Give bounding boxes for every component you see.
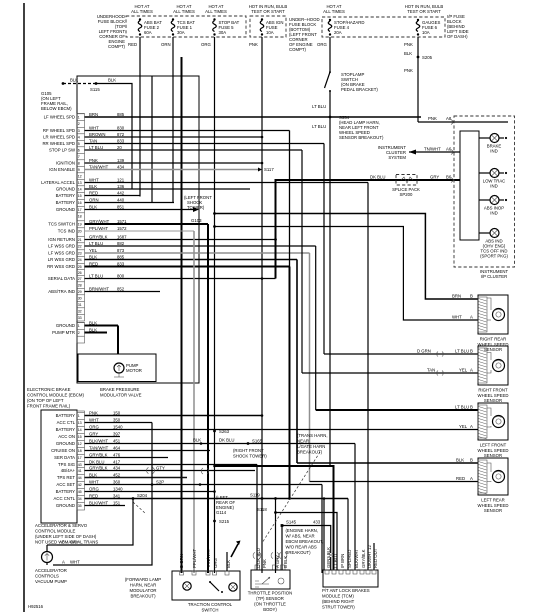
EBCM pin 19 row [77, 220, 85, 222]
wire RF WSS return riser [301, 150, 303, 373]
svg-text:NEAR: NEAR [297, 439, 309, 444]
svg-text:139: 139 [117, 158, 125, 163]
svg-text:B BLK: B BLK [283, 556, 288, 568]
svg-text:7: 7 [78, 155, 80, 159]
svg-text:1: 1 [78, 324, 80, 328]
svg-text:PNK: PNK [404, 42, 413, 47]
svg-text:ORG: ORG [201, 42, 211, 47]
svg-text:434: 434 [113, 466, 121, 471]
svg-text:ORN: ORN [89, 198, 99, 203]
svg-text:S204: S204 [137, 493, 148, 498]
svg-text:360: 360 [113, 480, 121, 485]
svg-text:GRY/WHT: GRY/WHT [89, 219, 110, 224]
svg-text:TCS SWITCH: TCS SWITCH [48, 222, 75, 227]
svg-text:BLK: BLK [89, 255, 97, 260]
svg-text:30A: 30A [177, 30, 185, 35]
EBCM pin 9 row [77, 165, 85, 167]
svg-text:SENSOR: SENSOR [484, 398, 502, 403]
EBCM pin 13 row [77, 178, 85, 180]
svg-text:4: 4 [78, 135, 80, 139]
svg-text:5: 5 [78, 142, 80, 146]
svg-text:TAN: TAN [427, 368, 435, 373]
EBCM pin 8 row [77, 159, 85, 161]
svg-text:LR WSS GRD: LR WSS GRD [48, 257, 75, 262]
svg-text:ORG: ORG [317, 42, 327, 47]
wire RF WSS riser [323, 144, 325, 355]
dashed breakout callouts [262, 452, 320, 543]
svg-text:S165: S165 [252, 439, 263, 444]
svg-text:GROUND: GROUND [56, 187, 75, 192]
svg-text:THROTTLE POSITION: THROTTLE POSITION [248, 591, 292, 596]
wire PNK from ABS IGN fuse [261, 37, 263, 573]
svg-text:WHEEL SPEED: WHEEL SPEED [478, 393, 509, 398]
svg-text:SENSOR: SENSOR [484, 453, 502, 458]
svg-text:BLK: BLK [89, 205, 97, 210]
wire PNK from GAUGES fuse [417, 37, 419, 122]
svg-text:ACC SET: ACC SET [56, 482, 75, 487]
svg-text:IGN ENABLE: IGN ENABLE [49, 167, 75, 172]
svg-text:STOP LP SW: STOP LP SW [49, 148, 76, 153]
svg-text:(ENGINE HARN,: (ENGINE HARN, [286, 528, 318, 533]
svg-text:GTY: GTY [156, 466, 165, 471]
EBCM pin 20 row [77, 227, 85, 229]
svg-text:15: 15 [78, 435, 82, 439]
wire thick stop lamp branch [215, 466, 334, 570]
tc switch pin terminals [180, 571, 184, 575]
svg-text:S215: S215 [219, 519, 230, 524]
svg-text:BLK: BLK [226, 560, 231, 568]
accelerator module pin column [77, 411, 85, 510]
wire ACC SET drop [321, 485, 323, 574]
svg-text:12: 12 [78, 174, 82, 178]
svg-text:442: 442 [117, 191, 125, 196]
svg-text:GRY/BLK: GRY/BLK [89, 453, 108, 458]
svg-text:GROUND: GROUND [56, 323, 75, 328]
svg-text:BATTERY: BATTERY [56, 427, 76, 432]
splice S354 [329, 116, 332, 119]
svg-text:ACCELERATOR: ACCELERATOR [35, 568, 67, 573]
instrument cluster dashed box [454, 116, 515, 267]
tc switch lamp [183, 582, 191, 590]
svg-text:RR WSS GRD: RR WSS GRD [47, 264, 75, 269]
traction control switch box [172, 571, 240, 600]
svg-text:2: 2 [78, 331, 80, 335]
svg-text:32: 32 [78, 309, 82, 313]
svg-text:1572: 1572 [117, 226, 127, 231]
svg-text:SPL/RED: SPL/RED [347, 550, 352, 568]
svg-text:1340: 1340 [113, 487, 123, 492]
svg-text:26: 26 [78, 271, 82, 275]
wire ORN thick bus [181, 57, 183, 573]
left front wheel speed sensor [478, 403, 509, 458]
svg-text:TN/WHT: TN/WHT [424, 147, 441, 152]
svg-text:CONTROL MODULE: CONTROL MODULE [35, 529, 76, 534]
svg-text:GROUND: GROUND [56, 503, 75, 508]
svg-text:(FORWARD LAMP: (FORWARD LAMP [125, 577, 161, 582]
splice pack SP200 [396, 175, 417, 186]
accel pin 1 row [77, 411, 85, 413]
svg-text:D GRN: D GRN [179, 554, 184, 568]
EBCM outline box [77, 76, 199, 383]
svg-text:43: 43 [78, 463, 82, 467]
svg-text:RED: RED [128, 42, 137, 47]
EBCM pin 25 row [77, 262, 85, 264]
svg-text:18: 18 [78, 214, 82, 218]
svg-text:RF WHEEL SPD: RF WHEEL SPD [43, 128, 75, 133]
svg-text:LT BLU: LT BLU [89, 241, 103, 246]
accel pin 43 row [77, 460, 85, 462]
svg-text:L/GATE HARN: L/GATE HARN [297, 444, 325, 449]
svg-text:20A: 20A [334, 30, 342, 35]
svg-text:1571: 1571 [117, 219, 127, 224]
splice S117 on ign enable wire [258, 168, 262, 172]
low trac indicator lamp [479, 169, 507, 189]
svg-text:29: 29 [78, 290, 82, 294]
tp sensor wire stubs [256, 465, 258, 571]
svg-text:TAN: TAN [89, 139, 97, 144]
EBCM pin 24 row [77, 255, 85, 257]
wire LR sensor feed [297, 462, 478, 464]
svg-text:MODULATOR VALVE: MODULATOR VALVE [100, 393, 142, 398]
svg-text:A: A [470, 368, 473, 373]
svg-text:HARN, NEAR: HARN, NEAR [130, 583, 157, 588]
svg-text:BLK/WHT: BLK/WHT [354, 549, 359, 568]
svg-text:A: A [470, 315, 473, 320]
svg-text:451: 451 [113, 439, 121, 444]
svg-text:FRONT FRAME RAIL): FRONT FRAME RAIL) [27, 404, 71, 409]
svg-text:LF WSS GRD: LF WSS GRD [48, 244, 75, 249]
svg-text:136: 136 [117, 184, 125, 189]
svg-text:PUMP MTR: PUMP MTR [52, 330, 75, 335]
wire BLK to EBCM ground [96, 84, 132, 190]
svg-text:440: 440 [117, 198, 125, 203]
left rear wheel speed sensor [478, 458, 509, 513]
wire ORG from STOP/HAZARD fuse to stoplamp switch [329, 37, 331, 71]
svg-text:A: A [62, 560, 65, 565]
accel pin 13 row [77, 418, 85, 420]
svg-text:TRACTION CONTROL: TRACTION CONTROL [188, 602, 233, 607]
svg-text:341: 341 [113, 494, 121, 499]
svg-text:BLK/WHT: BLK/WHT [89, 501, 108, 506]
wire LT BLU below stoplamp switch [329, 91, 331, 466]
svg-text:WHT: WHT [89, 480, 99, 485]
svg-text:14: 14 [78, 187, 82, 191]
svg-text:BLK: BLK [89, 321, 97, 326]
svg-text:BLK: BLK [456, 458, 464, 463]
wire RR sensor return branch [213, 225, 216, 228]
svg-text:872: 872 [117, 132, 125, 137]
tcm module box [323, 570, 378, 587]
svg-text:A6: A6 [446, 147, 452, 152]
svg-text:830: 830 [117, 126, 125, 131]
svg-text:ALL TIMES: ALL TIMES [173, 9, 195, 14]
svg-text:19: 19 [78, 222, 82, 226]
svg-text:LT BLU: LT BLU [455, 349, 469, 354]
cluster inner block [460, 131, 479, 240]
svg-text:150: 150 [113, 411, 121, 416]
svg-text:2: 2 [78, 122, 80, 126]
svg-text:YEL: YEL [89, 248, 98, 253]
svg-text:TOWER): TOWER) [187, 205, 205, 210]
tcm wire stub [373, 543, 375, 570]
svg-text:YEL: YEL [459, 368, 468, 373]
EBCM pin 6 row [77, 146, 85, 148]
svg-text:(BEHIND RIGHT: (BEHIND RIGHT [322, 599, 355, 604]
svg-text:PNK: PNK [89, 411, 98, 416]
wire ORG from STOP BAT fuse [214, 37, 216, 573]
svg-text:20: 20 [117, 145, 122, 150]
svg-text:8: 8 [78, 161, 80, 165]
svg-text:TAN/WHT: TAN/WHT [206, 548, 211, 568]
svg-text:A GRY: A GRY [275, 555, 280, 568]
svg-text:LT BLU: LT BLU [333, 554, 338, 568]
svg-text:10A: 10A [422, 30, 430, 35]
EBCM pin 31 row [77, 300, 85, 302]
EBCM pin 30 row [77, 294, 85, 296]
svg-text:A: A [470, 424, 473, 429]
svg-text:I/P CLUSTER: I/P CLUSTER [481, 274, 507, 279]
svg-text:30: 30 [78, 296, 82, 300]
EBCM pin 26 row [77, 268, 85, 270]
svg-text:WHT: WHT [89, 178, 99, 183]
svg-text:LT BLU: LT BLU [312, 124, 326, 129]
svg-text:882: 882 [117, 241, 125, 246]
wire LR WSS riser [296, 260, 298, 464]
svg-text:ORG: ORG [89, 487, 99, 492]
svg-text:BROWN: BROWN [89, 132, 105, 137]
svg-text:BRN/WHT: BRN/WHT [89, 287, 109, 292]
splice S119 [261, 497, 264, 500]
svg-text:SHOCK TOWER): SHOCK TOWER) [233, 454, 267, 459]
svg-text:20: 20 [78, 229, 82, 233]
svg-text:852: 852 [117, 287, 125, 292]
svg-text:TPS RET: TPS RET [57, 475, 76, 480]
svg-text:1540: 1540 [113, 425, 123, 430]
svg-text:397: 397 [113, 432, 121, 437]
svg-text:LT BLU: LT BLU [455, 405, 469, 410]
wire RR sensor feed branch [213, 212, 216, 215]
svg-text:RED: RED [456, 476, 465, 481]
svg-text:ORN: ORN [161, 42, 171, 47]
right front wheel speed sensor [478, 346, 509, 403]
inline connector C2 on accel row [147, 468, 155, 474]
svg-text:GRY/BLK: GRY/BLK [89, 466, 108, 471]
svg-text:LR WHEEL SPD: LR WHEEL SPD [43, 135, 75, 140]
wire stub into tc switch [226, 552, 228, 571]
wire thick TCS SWITCH vertical [207, 224, 209, 573]
svg-text:B: B [470, 458, 473, 463]
svg-text:GRY/BLK: GRY/BLK [361, 549, 366, 568]
svg-text:RED: RED [89, 262, 98, 267]
svg-text:885: 885 [117, 255, 125, 260]
wire LF sensor feed [316, 409, 478, 411]
svg-text:ALL TIMES: ALL TIMES [205, 9, 227, 14]
EBCM pin connector column [77, 114, 85, 322]
abs/tcs indicator lamp [479, 229, 508, 259]
svg-text:(TP) SENSOR: (TP) SENSOR [256, 596, 284, 601]
accelerator controls servo motor [42, 552, 53, 563]
svg-text:EBCM BREAKOUT,: EBCM BREAKOUT, [286, 539, 324, 544]
right rear wheel speed sensor [478, 295, 509, 352]
svg-text:B: B [62, 540, 65, 545]
wire RR WSS riser [289, 131, 291, 267]
IP fuse block dashed box [322, 17, 445, 37]
EBCM pin 28 row [77, 281, 85, 283]
svg-text:STRUT TOWER): STRUT TOWER) [322, 605, 355, 610]
accel pin 14 row [77, 425, 85, 427]
svg-text:RIGHT FRONT: RIGHT FRONT [478, 388, 508, 393]
fuse STOP/HAZARD [328, 19, 364, 36]
abs inop indicator lamp [479, 196, 507, 216]
wire GRY B6 riser [276, 180, 461, 279]
svg-text:MODULE (TCM): MODULE (TCM) [322, 594, 354, 599]
border frame line [23, 3, 25, 612]
svg-text:VACUUM PUMP: VACUUM PUMP [35, 579, 67, 584]
svg-text:DK BLU: DK BLU [89, 460, 105, 465]
svg-text:BREAKOUT): BREAKOUT) [130, 594, 156, 599]
svg-text:S117: S117 [264, 167, 274, 172]
EBCM pin 22 row [77, 242, 85, 244]
svg-text:18: 18 [78, 449, 82, 453]
svg-text:BLK: BLK [89, 184, 97, 189]
svg-text:SWITCH: SWITCH [202, 608, 219, 613]
wire drops from RED wire to TCM [323, 499, 325, 571]
svg-text:BLK: BLK [108, 78, 116, 83]
splice S263 [213, 430, 216, 433]
wire gray TCS IND vertical [193, 231, 195, 573]
svg-text:24: 24 [78, 258, 82, 262]
svg-text:S205: S205 [422, 55, 433, 60]
EBCM pin 5 row [77, 139, 85, 141]
svg-text:BRN: BRN [89, 112, 98, 117]
svg-text:17: 17 [78, 208, 82, 212]
svg-text:IND: IND [490, 211, 497, 216]
svg-text:60A: 60A [144, 30, 152, 35]
in-line connector on engine harn [281, 524, 284, 527]
accel pin 17 row [77, 453, 85, 455]
stoplamp switch [329, 71, 331, 73]
svg-text:S145: S145 [286, 520, 297, 525]
svg-text:BATTERY: BATTERY [56, 193, 76, 198]
accel pin 12 row [77, 439, 85, 441]
svg-text:BATTERY: BATTERY [56, 200, 76, 205]
svg-text:(TRANS HARN,: (TRANS HARN, [297, 433, 328, 438]
svg-text:WHEEL SPEED: WHEEL SPEED [478, 503, 509, 508]
svg-text:RED OUT: RED OUT [373, 548, 378, 568]
svg-text:833: 833 [117, 139, 125, 144]
svg-text:C DK BLU: C DK BLU [256, 548, 261, 568]
svg-text:TCS IND: TCS IND [58, 229, 75, 234]
svg-text:WHT: WHT [89, 126, 99, 131]
svg-text:IGN RETURN: IGN RETURN [48, 237, 75, 242]
EBCM pin 23 row [77, 249, 85, 251]
EBCM pin 27 row [77, 274, 85, 276]
EBCM pin 15 row [77, 191, 85, 193]
tc switch contact [209, 581, 211, 583]
svg-text:S115: S115 [90, 87, 100, 92]
svg-text:LF WHEEL SPD: LF WHEEL SPD [44, 115, 75, 120]
tc switch lamp 2 [229, 583, 237, 591]
svg-text:ELECTRONIC BRAKE: ELECTRONIC BRAKE [27, 387, 71, 392]
wire WHT drop to servo [53, 423, 152, 566]
svg-text:LF WSS GRD: LF WSS GRD [48, 251, 75, 256]
accel pin 41 row [77, 466, 85, 468]
accel pin 45 row [77, 487, 85, 489]
svg-text:SENSOR BREAKOUT): SENSOR BREAKOUT) [339, 135, 384, 140]
svg-text:(ON THROTTLE: (ON THROTTLE [254, 602, 286, 607]
svg-text:GROUND: GROUND [56, 207, 75, 212]
svg-text:D GRN: D GRN [417, 349, 431, 354]
splice S204 [132, 497, 135, 500]
svg-text:BODY): BODY) [263, 607, 277, 612]
svg-text:IND: IND [490, 184, 497, 189]
svg-text:TPS SIG: TPS SIG [58, 462, 76, 467]
wire drop to TCM pin [354, 444, 356, 571]
pump motor box (brake pressure modulator valve) [78, 354, 156, 382]
svg-text:TAN/WHT: TAN/WHT [89, 446, 109, 451]
wire gray LF WSS riser [309, 253, 311, 482]
accel pin 42 row [77, 480, 85, 482]
svg-text:A: A [470, 476, 473, 481]
svg-text:RIGHT REAR: RIGHT REAR [480, 337, 506, 342]
svg-text:34: 34 [78, 497, 82, 501]
svg-text:28: 28 [78, 283, 82, 287]
EBCM pin 16 row [77, 198, 85, 200]
svg-text:B: B [470, 405, 473, 410]
svg-text:873: 873 [117, 248, 125, 253]
svg-text:31: 31 [78, 303, 82, 307]
svg-text:(UNDER LEFT SIDE OF DASH): (UNDER LEFT SIDE OF DASH) [35, 534, 97, 539]
tp sensor inline connector arcs [253, 553, 261, 559]
svg-text:(SPORT PKG): (SPORT PKG) [480, 254, 508, 259]
svg-text:PNK: PNK [89, 158, 98, 163]
svg-text:13: 13 [78, 181, 82, 185]
wire LR sensor return [310, 481, 479, 483]
svg-text:PPL/WHT: PPL/WHT [89, 226, 108, 231]
EBCM inner vertical wire [151, 76, 153, 203]
wire RED from ABS BAT fuse [139, 37, 141, 197]
wire S118 branch [276, 513, 338, 571]
svg-text:RR WHEEL SPD: RR WHEEL SPD [42, 141, 75, 146]
svg-text:LATERAL ACCEL: LATERAL ACCEL [41, 180, 76, 185]
EBCM pin 21 row [77, 235, 85, 237]
EBCM pin 1 row [77, 113, 85, 115]
svg-text:10A: 10A [266, 30, 274, 35]
svg-text:NOT USED W/ MANUAL TRANS: NOT USED W/ MANUAL TRANS [35, 540, 98, 545]
svg-text:DK BLU: DK BLU [219, 438, 235, 443]
svg-text:SENSOR: SENSOR [484, 508, 502, 513]
svg-text:3: 3 [78, 129, 80, 133]
cluster system output arrow [409, 151, 460, 153]
svg-text:434: 434 [117, 165, 125, 170]
svg-text:G103: G103 [191, 218, 202, 223]
svg-text:SYSTEM: SYSTEM [388, 155, 406, 160]
splice S118 [274, 511, 277, 514]
svg-text:A8: A8 [446, 116, 452, 121]
underhood fuse block dashed box 1 [126, 16, 246, 37]
svg-text:BATTERY: BATTERY [56, 413, 76, 418]
wire ORN from TCS BAT fuse [172, 37, 174, 203]
brake indicator lamp [479, 134, 507, 154]
svg-text:BELOW EBCM): BELOW EBCM) [41, 106, 72, 111]
svg-text:ORG: ORG [213, 558, 218, 568]
svg-text:12: 12 [78, 442, 82, 446]
svg-text:IND: IND [490, 149, 497, 154]
svg-text:45: 45 [78, 490, 82, 494]
wire pump ground drop [117, 326, 119, 355]
svg-text:(ON TOP OF LEFT: (ON TOP OF LEFT [27, 398, 64, 403]
fuse STOP BAT [213, 18, 240, 35]
